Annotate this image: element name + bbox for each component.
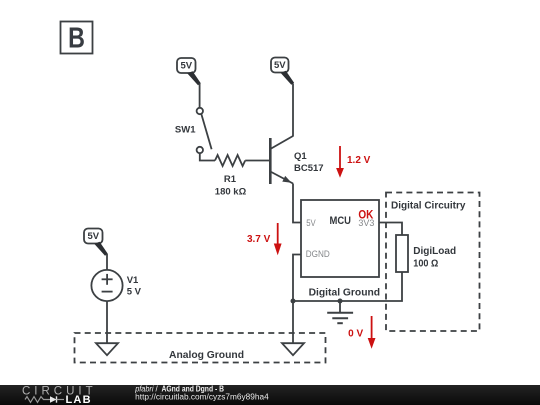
svg-text:LAB: LAB [66, 394, 92, 405]
dashed box Analog Ground [75, 333, 326, 363]
wire ground bus to right ground triangle [292, 301, 294, 343]
node junction at DGND wire [291, 299, 296, 304]
svg-text:R1: R1 [224, 174, 237, 185]
resistor DigiLoad 100 Ohm [396, 235, 456, 272]
svg-text:5V: 5V [87, 231, 99, 242]
footer bar [0, 385, 540, 405]
annotation arrow 1.2 V [336, 146, 371, 178]
svg-text:V1: V1 [127, 275, 139, 286]
svg-text:MCU: MCU [330, 215, 352, 227]
earth ground symbol [327, 301, 353, 323]
transistor Q1 BC517 [270, 136, 323, 184]
voltage flag 5V (to V1) [84, 229, 108, 256]
svg-text:http://circuitlab.com/cyzs7m6y: http://circuitlab.com/cyzs7m6y89ha4 [135, 393, 269, 402]
schematic label B box [61, 22, 93, 55]
svg-text:Analog Ground: Analog Ground [169, 350, 244, 361]
logo resistor-diode glyph [25, 396, 64, 403]
svg-text:BC517: BC517 [294, 163, 324, 174]
node junction at earth ground [338, 299, 343, 304]
svg-text:DGND: DGND [306, 249, 330, 260]
dashed box Digital Circuitry [386, 193, 480, 332]
svg-text:3V3: 3V3 [358, 218, 374, 228]
voltage flag 5V (to Q1 collector) [271, 58, 294, 85]
wire Q1 emitter to MCU 5V pin [293, 184, 301, 223]
svg-text:0 V: 0 V [348, 329, 363, 340]
svg-text:100 Ω: 100 Ω [413, 258, 438, 269]
wire MCU 3V3 to DigiLoad [379, 223, 402, 236]
MCU block U1 [301, 200, 379, 277]
wire flag to SW1 top [199, 84, 201, 108]
ground triangle (analog side) [96, 343, 118, 355]
svg-text:Digital Ground: Digital Ground [309, 288, 381, 299]
svg-text:Q1: Q1 [294, 151, 307, 162]
annotation arrow 3.7 V [247, 223, 282, 255]
wire V1 to left ground triangle [106, 301, 108, 343]
svg-text:SW1: SW1 [175, 124, 196, 135]
wire MCU DGND to ground bus [293, 255, 301, 302]
voltage flag 5V (to SW1) [177, 58, 201, 85]
ground triangle (digital side) [282, 343, 304, 355]
svg-text:3.7 V: 3.7 V [247, 234, 271, 245]
wire flag to V1 [106, 254, 108, 270]
voltage source V1 5V [91, 270, 141, 301]
wire R1 to Q1 base [245, 160, 269, 162]
annotation arrow 0 V [348, 316, 375, 349]
svg-text:1.2 V: 1.2 V [347, 155, 371, 166]
svg-text:5V: 5V [180, 61, 192, 72]
svg-text:B: B [68, 23, 85, 55]
footer title text [134, 384, 224, 393]
wire SW1 to R1 [200, 153, 215, 160]
wire Q1 collector [292, 84, 294, 137]
svg-text:Digital Circuitry: Digital Circuitry [391, 201, 466, 212]
svg-text:5 V: 5 V [127, 286, 142, 297]
resistor R1 180 kOhm [215, 155, 247, 197]
svg-text:5V: 5V [306, 218, 316, 228]
svg-text:180 kΩ: 180 kΩ [215, 186, 247, 197]
switch SW1 [175, 108, 212, 153]
svg-text:DigiLoad: DigiLoad [413, 246, 456, 257]
wire DigiLoad to ground bus [293, 272, 402, 301]
svg-text:5V: 5V [274, 60, 286, 71]
